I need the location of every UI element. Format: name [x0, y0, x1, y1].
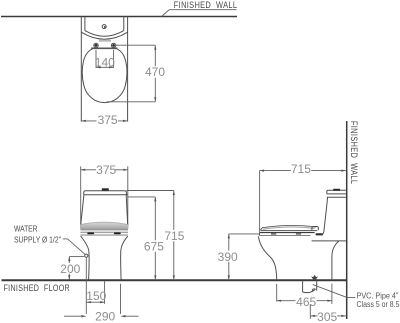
140 dimension line	[96, 66, 114, 68]
flush button dot (plan)	[104, 26, 106, 28]
715 dimension line (front)	[173, 191, 175, 280]
svg-text:390: 390	[218, 250, 238, 264]
svg-text:Class 5 or 8.5: Class 5 or 8.5	[357, 300, 400, 309]
715 arrow right (side)	[341, 170, 346, 172]
flush button ring (plan)	[102, 25, 106, 29]
465 left extension line	[276, 284, 278, 302]
supply leader dash	[63, 238, 68, 240]
715 arrow up (front)	[173, 191, 175, 196]
465 arrow left	[277, 300, 282, 302]
375 dimension line (front view)	[81, 169, 128, 171]
140 arrow left	[96, 66, 101, 68]
outlet pipe left wall (below floor)	[302, 281, 304, 292]
seat hinge strip top line (front)	[80, 231, 128, 233]
seat cover top surface tint (side)	[262, 226, 315, 230]
below-floor extension line at supply centerline	[85, 257, 87, 314]
seat bumper left (side)	[271, 233, 276, 234]
375 arrow right (plan)	[123, 120, 128, 122]
470 bottom extension line (plan)	[107, 101, 156, 103]
svg-text:715: 715	[291, 162, 311, 176]
svg-text:470: 470	[145, 65, 165, 79]
715 left extension line (side)	[259, 171, 261, 233]
svg-text:FINISHED WALL: FINISHED WALL	[174, 0, 238, 10]
tank base gray band (front)	[80, 222, 128, 230]
seat line (side)	[261, 230, 317, 232]
470 arrow down	[154, 97, 156, 102]
bowl rim front edge (side)	[258, 233, 261, 236]
below-floor extension line (290 right)	[120, 284, 122, 314]
470 dimension line	[154, 45, 156, 102]
seat cover front edge (side)	[261, 228, 262, 230]
200 arrow down	[68, 275, 70, 280]
150 dimension line	[86, 301, 104, 303]
675 top extension line	[128, 196, 156, 198]
svg-text:290: 290	[95, 309, 115, 323]
cover back gap line (plan)	[99, 40, 111, 42]
svg-text:FINISHED WALL: FINISHED WALL	[349, 121, 359, 184]
305 arrow left	[310, 315, 315, 317]
finished floor line	[2, 279, 347, 281]
675 dimension line	[154, 197, 156, 280]
svg-text:140: 140	[95, 55, 115, 69]
rim-tank junction shadow (side)	[316, 233, 323, 235]
svg-text:WATER: WATER	[14, 225, 38, 234]
bowl front contour (side)	[258, 236, 276, 280]
390 dimension line	[228, 234, 230, 280]
375 extension / tank widest edge left (front)	[80, 166, 82, 228]
675 arrow up	[154, 197, 156, 202]
tank inner right line (plan)	[123, 17, 125, 31]
rear base arc (side)	[332, 241, 339, 255]
390 arrow down	[228, 275, 230, 280]
floor outlet symbol (side)	[311, 275, 318, 280]
seat cover inner edge arc (side)	[263, 227, 315, 229]
140 right extension line (plan)	[113, 50, 115, 68]
465 arrow right	[327, 300, 332, 302]
bowl rim top line (side)	[260, 232, 315, 234]
under-seat shelf line (side)	[312, 240, 346, 242]
wall line (plan view, finished wall)	[1, 16, 237, 18]
465 right extension line	[331, 284, 333, 304]
290 right outside arrow	[126, 315, 139, 317]
140 arrow right	[109, 66, 114, 68]
375 arrow left (plan)	[81, 120, 86, 122]
465 dimension line	[277, 300, 332, 302]
flush button (front view)	[102, 188, 109, 190]
tank inner left line (plan)	[84, 17, 86, 31]
675 arrow down	[154, 275, 156, 280]
715 top extension line (front view to dim)	[126, 190, 173, 192]
svg-text:715: 715	[164, 229, 184, 243]
tank lid lower line (side)	[327, 196, 346, 198]
tank lid outer curve (plan)	[81, 32, 127, 39]
water supply inlet circle	[85, 254, 88, 257]
svg-text:150: 150	[86, 289, 106, 303]
seat hinge left (plan)	[94, 43, 98, 47]
finished wall line (side view)	[346, 121, 348, 319]
200 arrow up	[68, 257, 70, 262]
seat cover egg outline (plan)	[82, 49, 127, 103]
tank lid inner curve (plan)	[85, 31, 124, 37]
tank left slant (front)	[81, 195, 84, 225]
tank left side / 375 extension line (plan)	[80, 17, 82, 122]
bowl rim bottom line (side)	[260, 235, 311, 237]
svg-text:200: 200	[60, 262, 80, 276]
seat hinge cap right (front)	[114, 232, 121, 234]
svg-text:SUPPLY Ø 1/2": SUPPLY Ø 1/2"	[14, 235, 61, 244]
715 dimension line (side view, top)	[260, 170, 346, 172]
outlet pipe right wall (below floor)	[316, 281, 318, 290]
svg-text:375: 375	[98, 113, 118, 127]
715 arrow down (front)	[173, 275, 175, 280]
outlet pipe bottom curve	[303, 289, 316, 293]
seat hinge strip bottom line (front)	[80, 234, 128, 236]
290 left outside arrow	[64, 315, 81, 317]
390 top extension line	[229, 233, 259, 235]
150 arrow right	[100, 301, 105, 303]
supply leader line	[68, 239, 86, 255]
305 left extension line (pipe centerline)	[309, 305, 311, 319]
tank front slant (side)	[322, 197, 328, 234]
leader to FINISHED WALL label	[162, 10, 237, 17]
svg-text:465: 465	[296, 295, 316, 309]
305 arrow right	[341, 315, 346, 317]
150 arrow left	[86, 301, 91, 303]
pedestal left contour (front)	[81, 236, 89, 280]
200 top tick	[69, 256, 84, 258]
flush button (side view)	[333, 189, 340, 191]
pedestal back vertical (side)	[331, 256, 333, 281]
375 extension / tank widest edge right (front)	[127, 166, 129, 228]
svg-text:675: 675	[144, 240, 164, 254]
200 dimension line	[68, 257, 70, 280]
tank right side / 375 extension line (plan)	[127, 17, 129, 122]
390 arrow up	[228, 234, 230, 239]
seat hinge bump (side)	[312, 227, 318, 231]
seat back bar (plan)	[91, 47, 117, 49]
pedestal right contour (front)	[121, 236, 128, 280]
PVC pipe leader line	[313, 285, 356, 298]
svg-text:375: 375	[96, 163, 116, 177]
305 dimension line	[310, 315, 346, 317]
tank lid (front view)	[84, 191, 128, 195]
375 arrow left (front)	[81, 169, 86, 171]
tank right slant (front)	[126, 195, 128, 225]
140 left extension line (plan)	[95, 50, 97, 68]
seat cover top arc (side view)	[262, 226, 316, 228]
svg-text:305: 305	[317, 310, 337, 323]
seat hinge cap left (front)	[87, 232, 94, 234]
svg-text:FINISHED FLOOR: FINISHED FLOOR	[4, 283, 71, 293]
seat bumper right (side)	[296, 233, 301, 234]
seat hinge right (plan)	[111, 43, 115, 47]
tank lid (side view)	[327, 190, 346, 194]
375 dimension line (plan)	[81, 120, 127, 122]
715 arrow left (side)	[260, 170, 265, 172]
470 top extension line (plan)	[116, 44, 156, 46]
below-floor extension line (150 right)	[104, 281, 106, 304]
470 arrow up	[154, 45, 156, 50]
375 arrow right (front)	[123, 169, 128, 171]
